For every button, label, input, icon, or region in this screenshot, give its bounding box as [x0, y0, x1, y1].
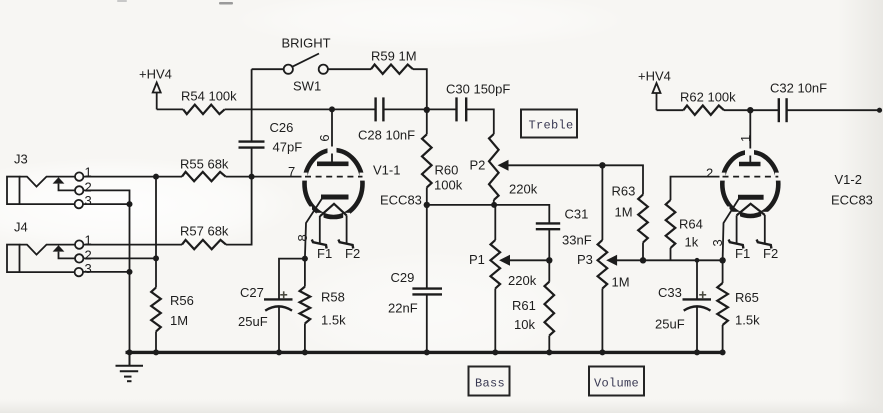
wire J4 ring [83, 257, 156, 259]
node P3 ground [599, 349, 605, 355]
svg-text:C29: C29 [391, 270, 415, 285]
svg-text:C27: C27 [240, 285, 264, 300]
power +HV4 left [139, 67, 172, 110]
svg-text:1k: 1k [685, 234, 699, 249]
wire R61 ground [548, 336, 550, 353]
svg-text:R63: R63 [612, 184, 636, 199]
wire cathode tee [279, 259, 305, 300]
svg-text:R61: R61 [512, 298, 536, 313]
label C33 plus [699, 291, 706, 298]
resistor R60 [422, 134, 432, 187]
wire C32 output [787, 109, 880, 111]
jack J3 [7, 172, 83, 208]
wiper P2 [498, 160, 603, 171]
wire HV to R62 [657, 109, 684, 111]
node J4 sleeve [127, 269, 133, 275]
node R56 ground [153, 349, 159, 355]
wiper P3 [606, 255, 722, 266]
svg-text:P2: P2 [470, 158, 486, 173]
wire P3 ground [601, 289, 603, 353]
resistor R59 [371, 65, 413, 74]
svg-text:100k: 100k [434, 177, 463, 192]
scan blotch mid [280, 250, 580, 370]
svg-text:22nF: 22nF [388, 300, 418, 315]
svg-text:R58: R58 [321, 290, 345, 305]
switch SW1 [284, 54, 328, 74]
wire R59 down to node [413, 69, 427, 110]
svg-text:R57 68k: R57 68k [180, 224, 229, 239]
wire R64 to node [670, 248, 672, 260]
wire grid-node down R56 [155, 177, 157, 288]
node grid V1-1 [249, 174, 255, 180]
node C33 ground [694, 349, 700, 355]
node cathode V1-1 [302, 256, 308, 262]
svg-text:SW1: SW1 [293, 78, 321, 93]
resistor R63 [638, 195, 648, 243]
wire cathode to R65 [722, 260, 724, 283]
svg-text:3: 3 [85, 261, 92, 276]
svg-text:J4: J4 [14, 220, 28, 235]
svg-text:ECC83: ECC83 [380, 193, 422, 208]
scan shade right edge [838, 0, 883, 413]
svg-text:220k: 220k [509, 182, 538, 197]
heater pin F1 V1-1 [312, 240, 327, 249]
heater pin F2 V1-2 [757, 240, 772, 249]
potentiometer P2 [489, 134, 499, 200]
svg-text:V1-2: V1-2 [835, 172, 862, 187]
svg-text:+HV4: +HV4 [638, 68, 671, 83]
label C27 plus [280, 291, 287, 298]
svg-text:7: 7 [288, 164, 295, 179]
resistor R62 [683, 106, 724, 115]
node P2 bottom [491, 202, 497, 208]
svg-text:C32 10nF: C32 10nF [770, 80, 827, 95]
capacitor C32 [779, 98, 787, 122]
svg-text:P3: P3 [577, 252, 593, 267]
svg-text:BRIGHT: BRIGHT [282, 36, 331, 51]
node C29 ground2 [424, 349, 430, 355]
wire J3 ring down [83, 190, 129, 352]
wire HV to R54 [157, 108, 184, 110]
svg-text:1.5k: 1.5k [321, 312, 346, 327]
svg-text:R54 100k: R54 100k [181, 89, 237, 104]
svg-text:V1-1: V1-1 [373, 163, 400, 178]
wire slope [427, 205, 550, 223]
node slope left [424, 202, 430, 208]
svg-text:R65: R65 [735, 290, 759, 305]
node R61 ground [546, 349, 552, 355]
svg-text:10k: 10k [514, 317, 535, 332]
wire wiper node down to P3 [601, 165, 603, 240]
node cathode V1-2 [719, 257, 725, 263]
jack J4 [7, 240, 83, 276]
wire plate lead V1-2 [749, 110, 751, 162]
wire R63 to node [642, 243, 644, 261]
wire P1 ground [494, 289, 496, 353]
node bus right end [720, 349, 726, 355]
capacitor C31 [536, 223, 560, 229]
triode V1-1 [302, 147, 366, 221]
wire P2 bottom [493, 200, 495, 205]
svg-text:C28 10nF: C28 10nF [358, 128, 415, 143]
node treble top [424, 107, 430, 113]
svg-text:+HV4: +HV4 [139, 67, 172, 82]
wire C26 top [251, 69, 253, 141]
box Volume [589, 367, 644, 396]
capacitor C27 [264, 299, 293, 310]
wire J3 tip to R55 [83, 176, 182, 178]
node R63 P3 wiper [640, 257, 646, 263]
node C33 top [695, 258, 700, 263]
resistor R58 [300, 287, 311, 324]
wire J3 sleeve [83, 203, 130, 205]
scan mark top2 [117, 0, 127, 2]
heater leg F1 V1-2 [736, 215, 738, 243]
svg-text:8: 8 [295, 234, 310, 241]
svg-text:25uF: 25uF [655, 317, 685, 332]
svg-text:Treble: Treble [529, 118, 574, 132]
svg-text:J3: J3 [14, 152, 28, 167]
heater leg F2 V1-1 [346, 215, 348, 243]
triode V1-2 [720, 149, 782, 220]
svg-text:1: 1 [738, 135, 753, 142]
wire C30 to P2 [466, 109, 494, 134]
ground bus [126, 351, 724, 354]
wire R55 to grid node [226, 176, 306, 178]
heater leg F1 V1-1 [319, 216, 321, 243]
wire cathode V1-1 pin8 [305, 199, 322, 259]
wire cathode to R58 [304, 259, 306, 287]
resistor R61 [545, 282, 555, 336]
svg-text:1.5k: 1.5k [735, 312, 760, 327]
wire C27 to ground [278, 307, 280, 353]
wire grid V1-2 R64 [671, 177, 723, 200]
node plate V1-1 [329, 106, 335, 112]
box Treble [521, 110, 577, 138]
resistor R64 [666, 200, 676, 248]
svg-text:F1: F1 [317, 246, 332, 261]
svg-text:R59 1M: R59 1M [371, 48, 417, 63]
svg-text:R60: R60 [435, 163, 459, 178]
potentiometer P3 [598, 240, 608, 289]
wire P2 join P1 [494, 205, 495, 240]
svg-text:Bass: Bass [475, 376, 505, 390]
node output [877, 108, 882, 113]
resistor R65 [717, 283, 728, 325]
node J3 tip junction [153, 174, 159, 180]
svg-text:3: 3 [85, 193, 92, 208]
svg-text:C33: C33 [658, 285, 682, 300]
svg-text:1M: 1M [612, 274, 630, 289]
capacitor C29 [412, 289, 442, 295]
box Bass [469, 367, 510, 396]
node ground bus left [127, 349, 133, 355]
wire wiper node to R63 [602, 165, 643, 194]
resistor R54 [183, 105, 224, 114]
resistor R55 [182, 172, 226, 181]
svg-text:47pF: 47pF [273, 140, 303, 155]
ground symbol [116, 352, 144, 381]
wire R57 up to grid node [226, 148, 252, 245]
scan mark top [219, 2, 233, 5]
wire plate node to C28 [332, 108, 376, 110]
node C31 P1 R61 [546, 257, 552, 263]
wire plate node to C32 [750, 109, 779, 111]
wire J4 sleeve [83, 271, 130, 273]
wire C31 to wiper node [548, 229, 550, 260]
svg-text:F2: F2 [763, 246, 778, 261]
wire node to R61 [548, 260, 550, 281]
scan blotch left [0, 157, 300, 253]
svg-text:R62 100k: R62 100k [680, 90, 736, 105]
wire C28 to node [383, 108, 426, 110]
wiper P1 [499, 255, 549, 266]
wire R58 to ground [304, 324, 306, 353]
svg-text:C30 150pF: C30 150pF [446, 82, 510, 97]
wire C33 to ground [696, 307, 698, 353]
svg-text:Volume: Volume [594, 376, 639, 390]
wire R56 to ground [155, 332, 157, 353]
svg-text:P1: P1 [469, 252, 485, 267]
svg-text:1M: 1M [615, 205, 633, 220]
wire R54 to plate node [225, 108, 332, 110]
svg-text:ECC83: ECC83 [831, 193, 873, 208]
svg-text:33nF: 33nF [562, 232, 592, 247]
wire slope node to C29 [426, 205, 428, 289]
wire R60 to slope node [426, 187, 428, 205]
node P1 ground [492, 349, 498, 355]
node plate V1-2 [747, 107, 753, 113]
capacitor C26 [239, 142, 265, 148]
wire J4 tip to R57 [83, 244, 182, 246]
svg-text:R56: R56 [170, 293, 194, 308]
svg-text:220k: 220k [508, 273, 537, 288]
node P2 wiper tee [599, 162, 605, 168]
power +HV4 right [638, 68, 671, 110]
heater pin F1 V1-2 [729, 240, 744, 249]
scan shade bottom edge [0, 399, 883, 413]
capacitor C28 [376, 97, 384, 121]
wire cathode V1-2 pin3 [723, 199, 739, 261]
wire R65 to ground [722, 325, 724, 352]
heater leg F2 V1-2 [764, 215, 766, 243]
wire switch to R59 [328, 68, 371, 70]
svg-text:C31: C31 [565, 207, 589, 222]
node R58 ground [302, 349, 308, 355]
node J3 sleeve [127, 201, 133, 207]
svg-text:1M: 1M [170, 313, 188, 328]
wire plate lead V1-1 [331, 109, 333, 161]
svg-text:R64: R64 [679, 217, 703, 232]
capacitor C30 [457, 97, 467, 121]
svg-text:R55 68k: R55 68k [180, 157, 229, 172]
wire node to R60 [426, 110, 428, 135]
resistor R57 [182, 240, 226, 249]
svg-text:F2: F2 [345, 246, 360, 261]
svg-text:F1: F1 [735, 246, 750, 261]
node J4 ring [153, 255, 159, 261]
node C27 ground [276, 349, 282, 355]
potentiometer P1 [491, 240, 501, 289]
capacitor C33 [683, 299, 712, 310]
wire R62 to plate node [724, 109, 750, 111]
wire C29 ground [426, 294, 428, 352]
scan blotch top [230, 0, 630, 50]
heater pin F2 V1-1 [338, 240, 353, 249]
svg-text:C26: C26 [270, 120, 294, 135]
wire switch left [252, 68, 284, 70]
wire node to C30 [427, 108, 457, 110]
resistor R56 [151, 288, 161, 332]
wire C33 tee [696, 260, 698, 299]
svg-text:25uF: 25uF [238, 314, 268, 329]
svg-text:2: 2 [706, 166, 713, 181]
svg-text:6: 6 [317, 134, 332, 141]
